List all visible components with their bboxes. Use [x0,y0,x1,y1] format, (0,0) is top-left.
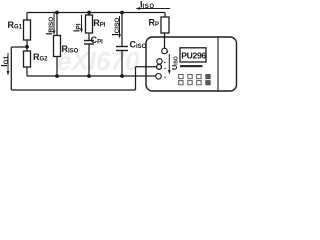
current arrow ICISO [118,16,121,39]
label box PU296 [180,48,206,62]
resistor RG1 [24,20,31,40]
wire Rpi branch top [88,13,90,16]
current arrow IG [7,53,10,76]
current arrow IISO [136,7,171,10]
resistor Rpi [86,15,93,33]
wire Cpi bottom [88,44,90,76]
resistor Riso [54,36,61,57]
node dot Riso bottom [55,74,59,78]
node dot RG1-RG2 tap [25,45,29,49]
button row1 col1 [179,75,183,79]
node dot Cpi bottom [87,74,91,78]
wire guard to terminal [136,66,157,68]
node dot Ciso bottom [120,74,124,78]
wire Rp to terminal [164,33,166,48]
svg-text:PU296: PU296 [181,51,206,61]
wire Rpi to Cpi [88,33,90,40]
wire left branch top [26,13,28,21]
instrument divider [217,38,219,91]
current arrow IRISO [53,13,56,35]
terminal T1 [162,48,168,54]
voltage arrow UISO [168,54,171,75]
button row1 col4 [206,75,210,79]
wire guard riser [135,67,137,90]
terminal T3 [157,64,162,69]
resistor Rp [161,17,169,33]
button row1 col2 [188,75,192,79]
wire top rail [27,12,165,14]
wire Riso branch top [56,13,58,36]
current arrow IPI [80,15,83,33]
button row2 col1 [179,81,183,85]
capacitor Cpi [84,41,94,45]
capacitor Ciso [116,47,128,51]
wire RG2 bottom [26,67,28,76]
terminal T2 [157,59,162,64]
wire guard bottom [11,89,135,91]
node dot Ciso top [120,11,124,15]
button row2 col4 [206,81,210,85]
resistor RG2 [24,51,31,67]
button row1 col3 [197,75,201,79]
wire guard tap [11,46,27,48]
wire RG1-RG2 link [26,40,28,51]
node dot Rpi top [87,11,91,15]
instrument box PU296 [146,37,237,91]
button row2 col2 [188,81,192,85]
terminal T4 [156,74,162,80]
wire Ciso branch top [121,13,123,47]
wire guard left vertical [10,47,12,90]
wire bottom rail [27,75,156,77]
node dot Riso top [55,11,59,15]
wire top rail corner down to Rp [164,13,166,18]
display bar [180,65,203,67]
wire Riso branch bottom [56,57,58,77]
wire Ciso bottom [121,51,123,77]
button row2 col3 [197,81,201,85]
